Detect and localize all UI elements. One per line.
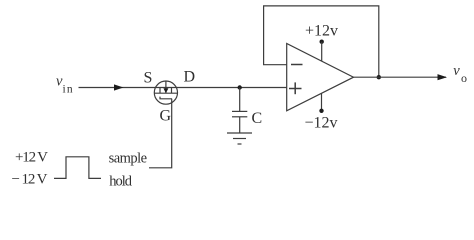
- node junction at capacitor tap: [238, 85, 242, 89]
- wire: vin to op-amp plus input: [79, 87, 287, 89]
- svg-text:sample: sample: [109, 150, 148, 166]
- output arrowhead: [438, 74, 448, 80]
- svg-text:G: G: [160, 107, 172, 124]
- op-amp U1: [287, 44, 354, 111]
- capacitor C1: [232, 88, 247, 134]
- supply -12v: [304, 93, 337, 131]
- svg-text:hold: hold: [109, 173, 133, 189]
- input arrowhead: [114, 84, 124, 90]
- svg-text:S: S: [144, 70, 153, 87]
- svg-text:vo: vo: [453, 63, 467, 85]
- svg-text:+12v: +12v: [305, 23, 338, 40]
- svg-text:vin: vin: [56, 74, 74, 96]
- pulse waveform sample/hold: [54, 157, 101, 179]
- ground: [227, 133, 252, 144]
- svg-text:− 12 V: − 12 V: [12, 171, 48, 187]
- svg-text:−12v: −12v: [304, 115, 337, 132]
- wire: output: [354, 76, 447, 78]
- svg-text:C: C: [252, 110, 263, 127]
- transistor Q1 (MOSFET switch): [154, 81, 177, 104]
- op-amp minus sign: [291, 64, 303, 66]
- svg-text:+12 V: +12 V: [15, 150, 48, 166]
- op-amp plus sign: [289, 82, 302, 94]
- node junction at output: [377, 75, 381, 79]
- supply +12v: [305, 23, 338, 62]
- svg-text:D: D: [184, 69, 196, 86]
- wire: feedback loop from output to minus input: [264, 6, 379, 77]
- wire: gate to control signal: [149, 99, 172, 168]
